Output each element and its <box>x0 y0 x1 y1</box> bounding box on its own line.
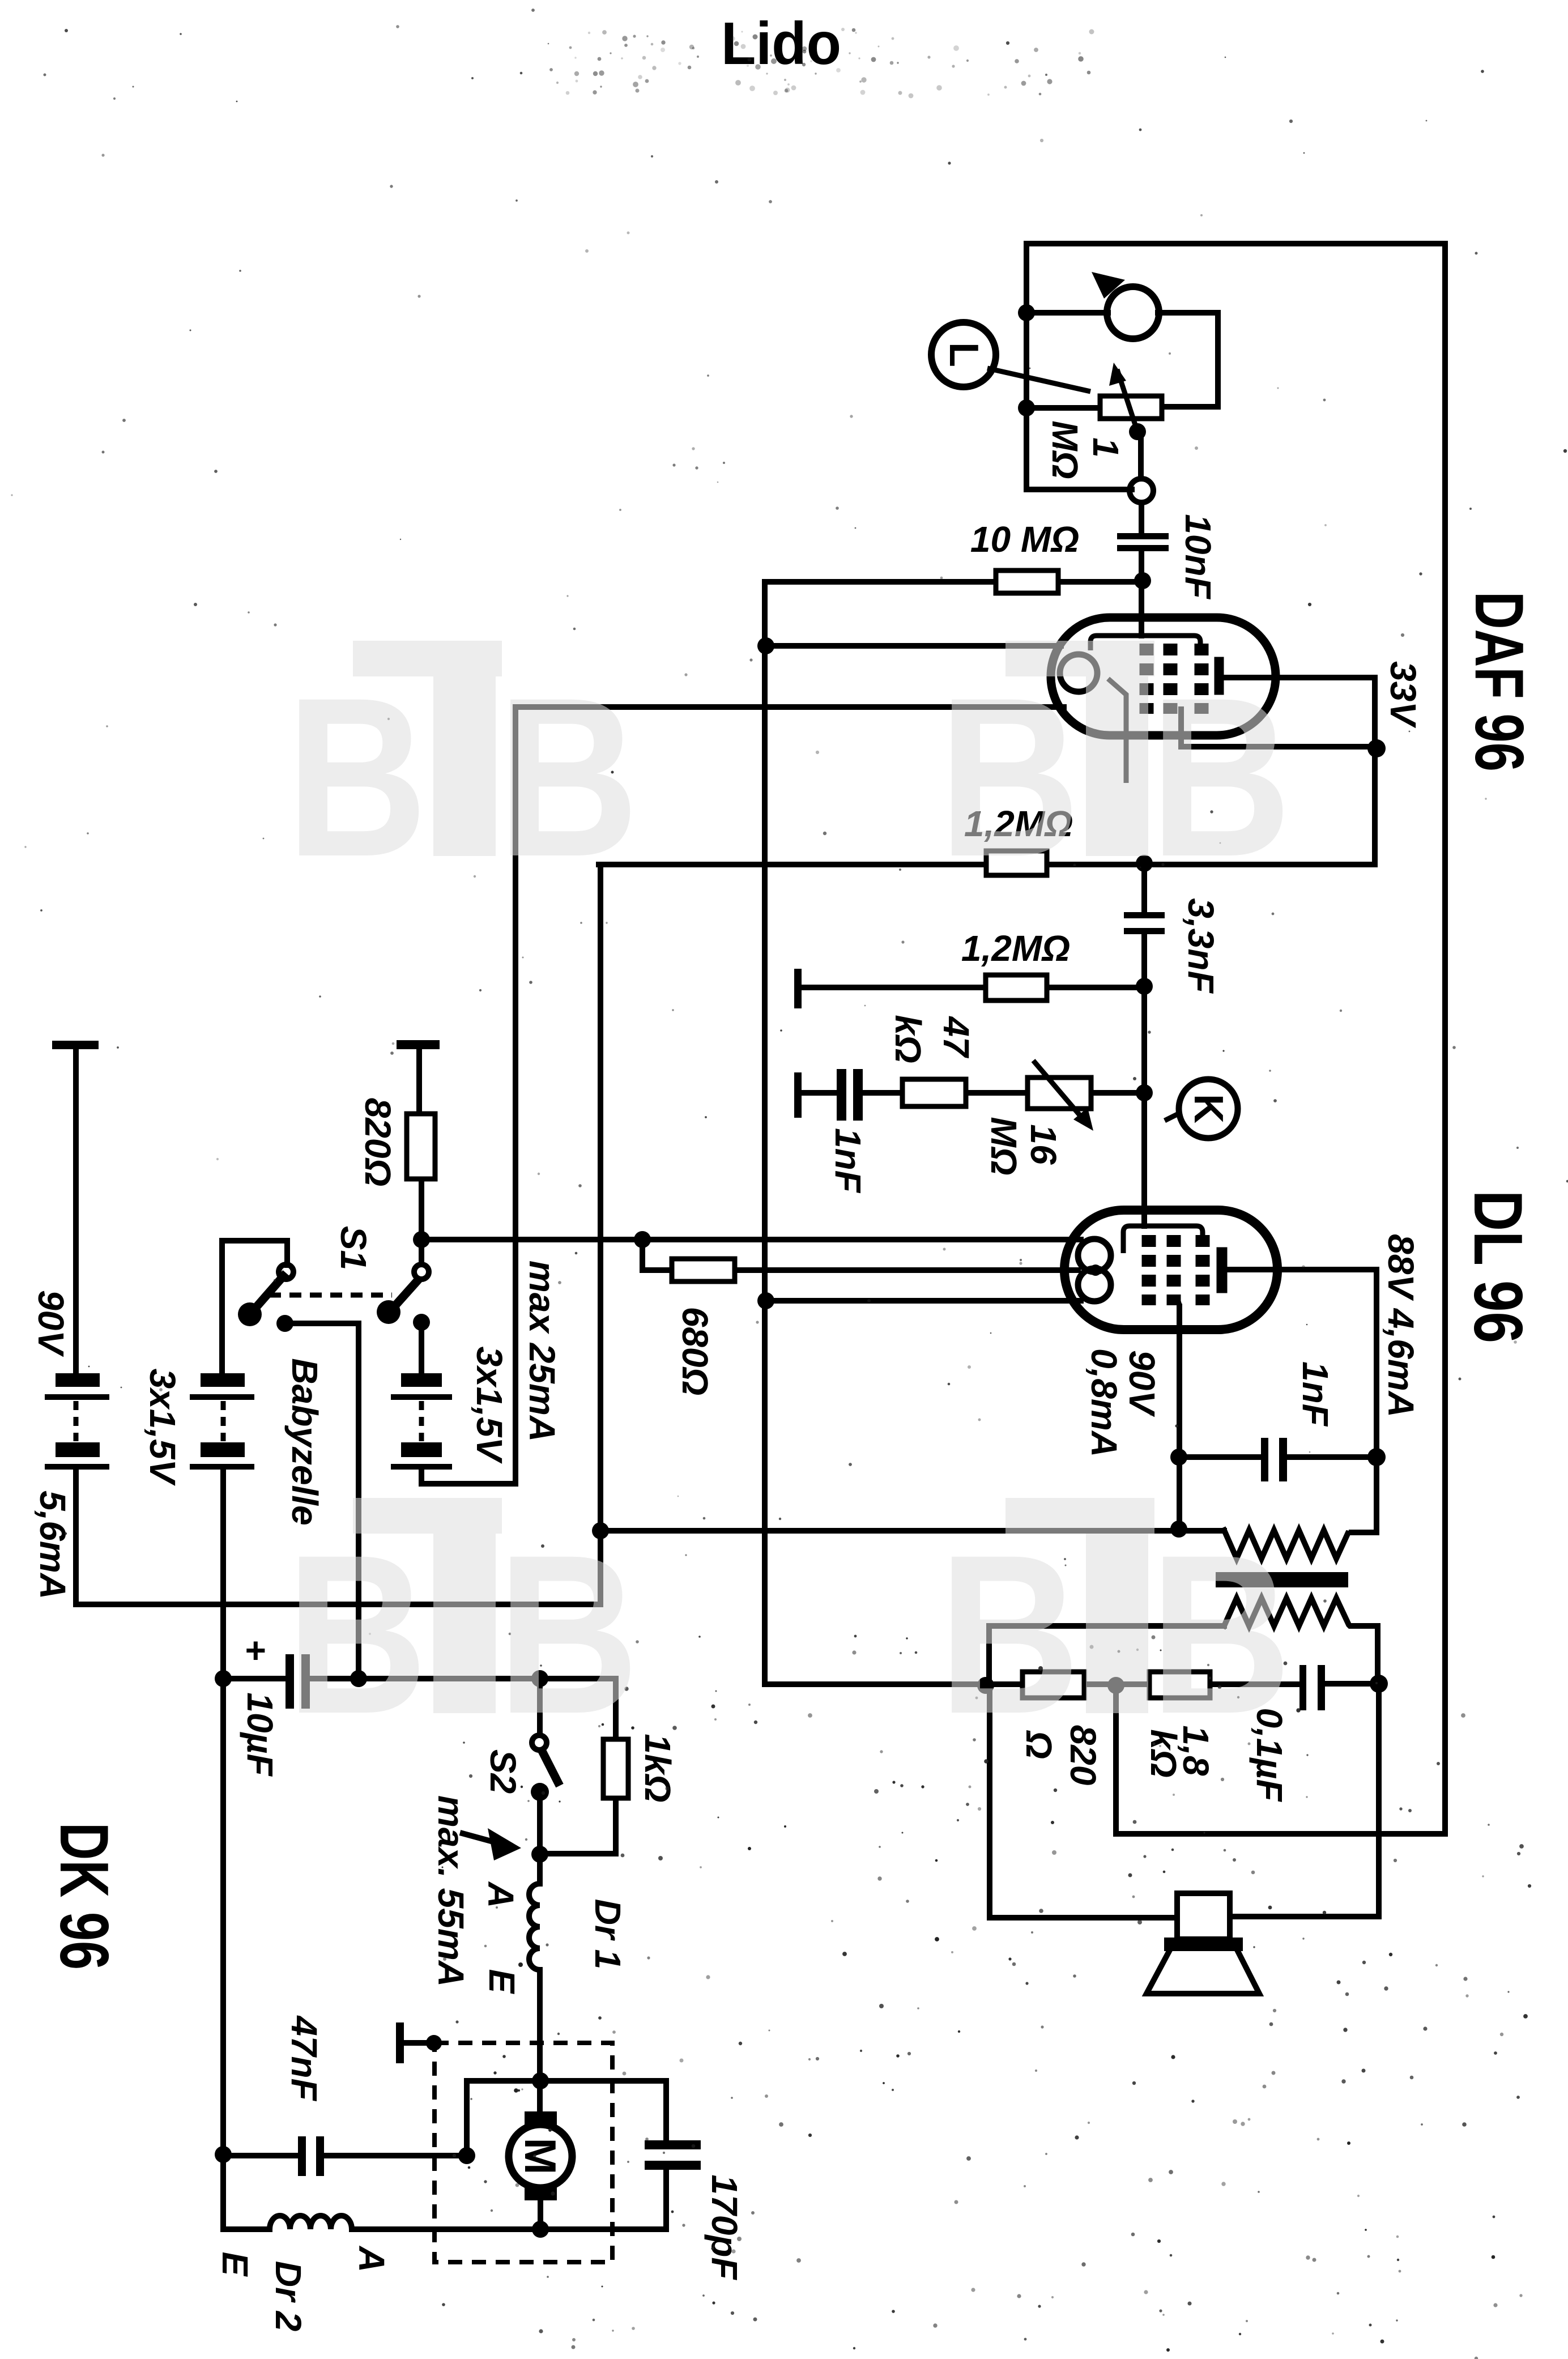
svg-text:88V 4,6mA: 88V 4,6mA <box>1380 1234 1421 1417</box>
svg-text:33V: 33V <box>1383 661 1424 729</box>
svg-text:820Ω: 820Ω <box>357 1098 398 1187</box>
svg-text:680Ω: 680Ω <box>675 1307 715 1396</box>
svg-text:DK 96: DK 96 <box>46 1823 123 1970</box>
svg-text:A: A <box>480 1881 521 1908</box>
svg-text:S1: S1 <box>333 1226 374 1270</box>
svg-text:K: K <box>1186 1094 1231 1123</box>
svg-text:Dr 1: Dr 1 <box>587 1899 628 1970</box>
svg-text:B: B <box>497 650 639 904</box>
svg-text:1,2MΩ: 1,2MΩ <box>961 928 1070 969</box>
svg-text:MΩ: MΩ <box>1045 420 1085 479</box>
svg-text:MΩ: MΩ <box>983 1117 1024 1175</box>
svg-text:0,8mA: 0,8mA <box>1084 1348 1124 1457</box>
svg-text:170pF: 170pF <box>704 2175 745 2281</box>
svg-text:kΩ: kΩ <box>888 1015 928 1063</box>
svg-text:1nF: 1nF <box>1295 1361 1336 1427</box>
svg-text:3,3nF: 3,3nF <box>1181 898 1221 994</box>
svg-text:3x1,5V: 3x1,5V <box>142 1369 183 1487</box>
svg-text:max 25mA: max 25mA <box>522 1261 563 1442</box>
svg-text:B: B <box>286 650 428 904</box>
svg-text:A: A <box>351 2245 392 2272</box>
svg-text:1nF: 1nF <box>828 1128 868 1194</box>
svg-text:L: L <box>941 342 986 367</box>
svg-text:Lido: Lido <box>721 10 841 77</box>
svg-text:Babyzelle: Babyzelle <box>284 1358 325 1525</box>
svg-text:16: 16 <box>1023 1124 1064 1165</box>
svg-text:10µF: 10µF <box>240 1692 280 1777</box>
svg-text:B: B <box>939 1508 1080 1761</box>
svg-text:DAF 96: DAF 96 <box>1461 591 1538 772</box>
svg-text:47: 47 <box>936 1015 977 1059</box>
svg-text:90V: 90V <box>31 1290 71 1357</box>
svg-text:10 MΩ: 10 MΩ <box>970 519 1079 560</box>
svg-text:B: B <box>1150 650 1292 904</box>
svg-text:E: E <box>215 2252 255 2277</box>
svg-text:Dr 2: Dr 2 <box>268 2261 309 2332</box>
svg-text:1: 1 <box>1085 437 1126 458</box>
svg-text:max. 55mA: max. 55mA <box>431 1795 471 1987</box>
svg-text:B: B <box>497 1508 639 1761</box>
svg-text:10nF: 10nF <box>1178 514 1218 599</box>
svg-text:E: E <box>482 1969 522 1995</box>
svg-text:5,6mA: 5,6mA <box>32 1491 73 1599</box>
svg-text:M: M <box>515 2138 565 2175</box>
svg-text:3x1,5V: 3x1,5V <box>469 1347 510 1464</box>
svg-text:1kΩ: 1kΩ <box>637 1734 678 1802</box>
svg-text:47nF: 47nF <box>284 2015 325 2101</box>
svg-text:90V: 90V <box>1122 1350 1162 1417</box>
svg-text:B: B <box>939 650 1080 904</box>
svg-text:B: B <box>1150 1508 1292 1761</box>
svg-text:+: + <box>244 1630 265 1671</box>
svg-text:B: B <box>286 1508 428 1761</box>
svg-text:DL 96: DL 96 <box>1460 1190 1537 1343</box>
